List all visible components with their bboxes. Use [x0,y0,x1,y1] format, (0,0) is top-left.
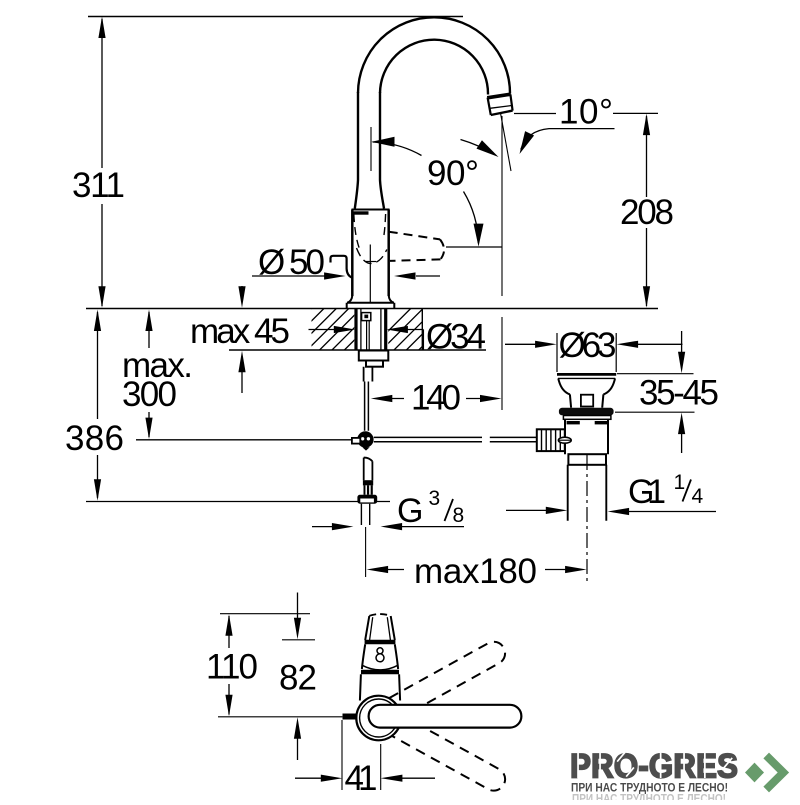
svg-text:311: 311 [72,166,125,205]
max300 bottom line / rod level line [136,439,352,441]
lift rod hook [331,256,353,278]
label G1 1-4 [628,471,704,511]
arrow max180 right [565,566,587,573]
arrow 90 bottom [474,224,484,247]
svg-text:208: 208 [620,193,674,232]
svg-text:ПРИ НАС ТРУДНОТО Е ЛЕСНО!: ПРИ НАС ТРУДНОТО Е ЛЕСНО! [572,794,726,801]
drain collar ring [559,408,614,416]
arrow 110 top [225,614,232,636]
supply nut flange [357,495,377,504]
shank end piece [364,367,373,382]
svg-text:PRO-GRES: PRO-GRES [570,748,738,786]
10 deg left arc [461,140,494,155]
arrow 208 top [643,114,650,136]
mousseur dot small [377,648,383,654]
arrow max45 bottom [238,351,245,373]
arrow 140 right [480,395,502,402]
svg-text:Ø63: Ø63 [559,326,617,365]
dimension 82 arrow shafts [297,593,299,761]
body right edge [387,210,390,297]
pop-up rod in shank [367,321,370,350]
svg-text:41: 41 [345,759,378,798]
pivot lower tab [362,447,369,450]
svg-text:3: 3 [429,487,441,510]
spout gooseneck outer arc [358,17,510,93]
pivot clamp [352,438,360,444]
arrow 82 bottom [294,717,301,739]
svg-text:90°: 90° [427,154,479,193]
dimension G1 1-4 leader [629,511,717,513]
spout body sides [362,644,398,669]
hose tails [361,504,369,525]
cartridge center tick [365,261,376,263]
arrowheads [94,17,685,574]
svg-text:G1: G1 [628,473,666,511]
pivot ball [357,431,373,447]
mounting nut lower [366,361,383,367]
handle lever dashed end [440,239,444,259]
arrow max180 left [367,566,389,573]
arrow 140 left [371,395,393,402]
arrow 208 bottom [643,286,650,308]
spout tip dashed top [369,614,390,616]
arrow max300 bottom [145,418,152,440]
body center line [369,245,371,303]
drain taper [558,378,615,394]
arrow D63 right [617,341,639,348]
dimension 386 line [97,312,99,498]
arrow G1 right [608,508,630,515]
drain centerline [586,455,588,583]
dimension 35-45 arrow shafts [681,331,683,453]
pop-up rod vertical [365,382,369,431]
cartridge dashed left [354,214,360,250]
arrow 10 right [515,131,534,156]
spout tip cone inner lines [370,617,391,640]
drain flange top [557,373,616,376]
front labels [206,648,378,799]
dashed lever up position [365,638,510,732]
arrow 311 top [98,17,105,39]
svg-text:max180: max180 [414,552,537,591]
base plate [347,303,395,309]
dimension 208 line [646,116,648,306]
spout gooseneck inner arc [380,40,488,95]
dimension 208 ticks [613,112,658,114]
386 bottom line [86,501,390,503]
supply hose dark band [363,480,373,485]
aerator band top [487,94,511,98]
svg-text:4: 4 [692,485,704,508]
dimension 110 line [228,616,230,715]
handle rosette outer circle [356,696,401,741]
dimension G1 left arrow line [506,509,548,511]
svg-text:386: 386 [65,419,124,458]
svg-text:Ø 50: Ø 50 [258,243,325,282]
dimension D63 extension lines [557,333,616,372]
solid lever [369,705,522,728]
tilted spout axis line [501,113,512,171]
arrow max45 top [238,286,245,308]
label G38 [397,487,464,530]
svg-text:G: G [397,492,423,530]
dimension D50 line [252,275,440,277]
spout tip cone sides [365,616,395,640]
10 deg leader [514,113,556,115]
arrow G38 right [381,523,403,530]
arrow max300 top [145,310,152,332]
90 deg arc lower [464,192,479,244]
threaded shank bold left [354,309,357,351]
body left edge [351,210,354,297]
logo green chevron [766,756,783,790]
body band front [361,670,399,675]
handle lever dashed top [389,232,440,240]
front dim line top (110) [220,613,310,615]
arrow 35-45 top [678,352,685,374]
svg-text:35-45: 35-45 [639,374,719,413]
countertop top surface line [86,308,658,310]
arrow 41 left [321,775,343,782]
arrow D34 right [386,326,408,333]
10 deg second leader [521,129,615,150]
svg-text:1: 1 [674,471,686,494]
joint smile arc [362,665,398,670]
drain notch left [567,421,580,424]
aerator band sides [488,94,513,115]
shank inner lines [361,309,381,351]
drain rod clamp [537,429,565,451]
arrow G1 left [546,507,568,514]
dashed lever down position [365,701,510,795]
drain plug rect [581,395,593,407]
dimension 41 extension lines [342,720,381,790]
riser pipe left [355,92,358,209]
dimension 41 line [295,777,435,779]
svg-text:140: 140 [411,379,461,418]
cartridge dashed right [383,214,385,239]
cartridge dashed dome [357,248,387,264]
arrow 386 bottom [94,479,101,501]
svg-text:82: 82 [279,659,317,698]
drain pivot eye [558,437,571,443]
arrow 311 bottom [98,286,105,308]
dimension 140 line [391,398,483,400]
base flange right [389,296,394,303]
lower body sides [360,674,400,700]
countertop right edge [421,309,423,351]
top reference line [88,16,463,18]
svg-text:110: 110 [206,648,258,687]
svg-text:Ø34: Ø34 [426,318,486,357]
svg-text:10°: 10° [559,93,613,132]
dimension D63 arrows lines [505,343,683,345]
drain body sides [565,419,608,454]
arrow 110 bottom [225,695,232,717]
svg-text:8: 8 [453,504,465,527]
dimension texts [65,93,719,592]
front dim line mouth (82) [282,639,315,641]
arrow 386 top [94,310,101,332]
countertop hatching left [270,309,398,351]
svg-text:300: 300 [122,375,177,414]
supply hose tube [364,458,373,481]
arrow D63 left [535,341,557,348]
drain tailpipe [568,465,607,521]
supply hose thread [364,485,373,494]
arrow D50 right [394,272,416,279]
front arrowheads [225,614,402,782]
front dim line lever level [218,716,342,718]
mousseur dot large [376,654,384,662]
horizontal pop-up rod [374,437,537,441]
handle rosette inner circle [360,699,398,737]
aerator band inner line [490,106,512,109]
dimension max45 arrows shafts [241,286,243,393]
dimension max180 line [388,569,567,571]
rod guide square dark center [364,315,368,319]
dimension G3-8 leader [312,526,464,528]
dimension D34 leader [309,330,424,351]
countertop hatching right [369,309,460,351]
dimension 35-45 level lines [615,374,695,413]
svg-text:max 45: max 45 [190,312,290,351]
vertical flow reference line [501,116,503,410]
dimension 311 line [101,19,103,306]
body bold interior mark [354,211,369,214]
drain neck [570,394,604,407]
handle lever dashed bottom [390,259,441,261]
drain bottom band [568,454,606,465]
aerator band bottom [491,111,513,115]
countertop bottom line [229,349,486,351]
arrow 41 right [381,775,403,782]
lever tip level line [446,246,502,248]
dimension max300 line [148,312,150,437]
mounting nut [359,351,389,361]
drain upper band [563,416,611,420]
wall bar bold [343,714,358,720]
90 deg arc upper [373,142,422,156]
body top line [352,209,390,211]
drain notch right [595,421,609,424]
base flange left [347,296,352,303]
arrow 90 top [372,137,395,147]
drain flange second line [558,377,615,379]
arrow 35-45 bottom [678,413,685,435]
arrow D34 left [334,326,356,333]
arrow 10 left [476,140,501,161]
riser pipe right [380,92,384,209]
arrow 82 top [294,618,301,640]
90 deg center extension line [370,127,372,171]
arrow D50 left [324,272,346,279]
aerator band front [365,640,396,645]
rod guide square [362,313,371,321]
faucet supply centerline extension [365,527,367,577]
logo green diamond [745,763,764,783]
threaded shank bold right [384,309,387,351]
arrow G38 left [332,523,354,530]
